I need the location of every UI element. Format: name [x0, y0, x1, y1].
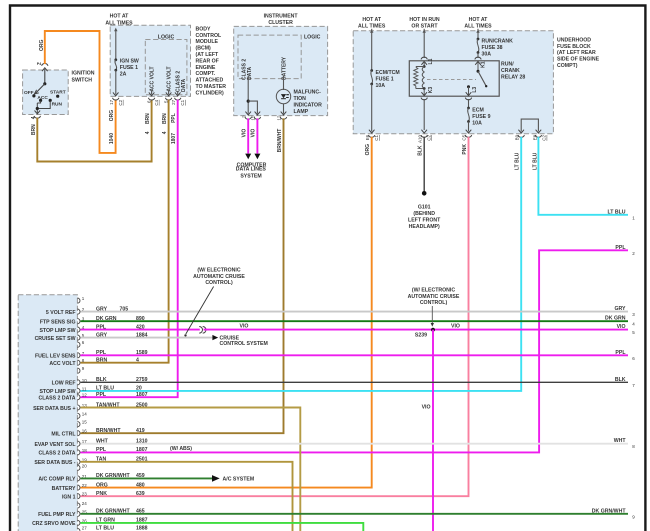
svg-text:P4: P4 — [37, 62, 41, 66]
wire WHT 1310 pin 17 to right pin 8 — [81, 443, 629, 445]
svg-text:ACC VOLT: ACC VOLT — [149, 66, 155, 91]
left connector pin 9 — [77, 366, 84, 373]
svg-text:C2: C2 — [427, 135, 432, 141]
BCM pin 27 C1 — [171, 92, 185, 144]
svg-text:BODY: BODY — [196, 26, 212, 32]
svg-text:LOW REF: LOW REF — [52, 381, 76, 387]
svg-text:CRUISE SET SW: CRUISE SET SW — [35, 336, 76, 342]
left connector pin 8 — [49, 358, 139, 368]
svg-text:CLUSTER: CLUSTER — [268, 20, 293, 26]
svg-text:ATTACHED: ATTACHED — [196, 78, 224, 84]
svg-text:STOP LMP SW: STOP LMP SW — [39, 328, 75, 334]
fuse block pin B9 — [514, 130, 524, 170]
svg-text:K3: K3 — [428, 87, 434, 94]
svg-text:11: 11 — [82, 386, 87, 391]
underhood fuse block side note — [557, 38, 600, 69]
svg-text:1807: 1807 — [136, 392, 148, 398]
svg-text:CLASS 2 DATA: CLASS 2 DATA — [39, 396, 76, 402]
svg-text:PPL: PPL — [96, 392, 107, 398]
svg-text:S239: S239 — [415, 333, 427, 339]
svg-text:SER DATA BUS +: SER DATA BUS + — [33, 406, 75, 412]
svg-text:BRN: BRN — [96, 358, 107, 364]
svg-text:10A: 10A — [376, 83, 386, 89]
svg-text:ORG: ORG — [109, 110, 115, 122]
HOT IN RUN OR START — [409, 17, 440, 29]
wire VIO cluster pin 15 to computer data lines — [254, 118, 260, 159]
left connector pin 23 — [62, 491, 145, 501]
cluster BATTERY label — [282, 56, 288, 80]
svg-text:RUN: RUN — [52, 102, 63, 108]
left connector pin 2 — [46, 306, 128, 316]
svg-text:C1: C1 — [374, 135, 379, 141]
body control module BCM box — [110, 25, 190, 96]
malfunction indicator lamp — [276, 76, 322, 115]
wire VIO splice S239 branch down — [422, 330, 433, 531]
svg-text:HOT AT: HOT AT — [469, 17, 489, 23]
svg-text:A/C SYSTEM: A/C SYSTEM — [223, 477, 255, 483]
svg-text:27: 27 — [171, 99, 176, 105]
svg-text:VIO: VIO — [451, 324, 460, 330]
svg-text:HEADLAMP): HEADLAMP) — [409, 224, 440, 230]
HOT AT ALL TIMES (left feed) — [358, 17, 386, 29]
right pin 1 — [607, 209, 635, 220]
svg-text:DK GRN: DK GRN — [605, 316, 626, 322]
svg-text:AUTOMATIC CRUISE: AUTOMATIC CRUISE — [193, 274, 245, 280]
instrument cluster box — [234, 14, 328, 116]
fuse block pin C5 — [462, 130, 472, 155]
svg-text:419: 419 — [136, 428, 145, 434]
left connector pin 17 — [34, 439, 147, 449]
svg-text:LT BLU: LT BLU — [515, 152, 521, 170]
svg-text:ACC VOLT: ACC VOLT — [166, 66, 172, 91]
svg-text:VIO: VIO — [242, 129, 248, 138]
svg-text:RUN/CRANK: RUN/CRANK — [482, 38, 514, 44]
svg-text:ACC: ACC — [37, 95, 48, 101]
svg-text:BRN/WHT: BRN/WHT — [277, 129, 283, 153]
svg-text:CONTROL): CONTROL) — [420, 300, 448, 306]
svg-text:(BCM): (BCM) — [196, 46, 212, 52]
svg-text:FUEL LEV SENS: FUEL LEV SENS — [35, 354, 76, 360]
wire LT BLU B9 to left connector pin 11 — [81, 137, 522, 391]
svg-text:PPL: PPL — [615, 245, 626, 251]
wire LT BLU E8 to right pin 1 — [538, 137, 628, 215]
svg-text:15: 15 — [251, 115, 256, 121]
inline connector on PPL/VIO wire — [199, 327, 206, 334]
svg-text:CONTROL: CONTROL — [196, 33, 222, 39]
svg-text:(W/ ELECTRONIC: (W/ ELECTRONIC — [412, 288, 455, 294]
svg-text:20: 20 — [136, 386, 142, 392]
ignition switch lower bracket wiring — [36, 101, 51, 114]
relay switch blade — [477, 61, 488, 87]
svg-text:1807: 1807 — [136, 447, 148, 453]
svg-text:BRN/WHT: BRN/WHT — [96, 428, 121, 434]
underhood fuse block box — [353, 31, 553, 134]
svg-text:PPL: PPL — [615, 350, 626, 356]
svg-text:23: 23 — [82, 492, 88, 497]
left connector pin 5 — [35, 332, 148, 342]
svg-text:CLASS 2 DATA: CLASS 2 DATA — [39, 451, 76, 457]
svg-text:FUSE 9: FUSE 9 — [472, 114, 490, 120]
svg-text:GRY: GRY — [614, 306, 626, 312]
svg-text:22: 22 — [82, 483, 88, 488]
svg-text:1040: 1040 — [109, 133, 115, 144]
cluster pin 12 — [277, 112, 287, 153]
left connector pin 26 — [32, 518, 148, 528]
svg-text:MIL CTRL: MIL CTRL — [51, 432, 76, 438]
svg-text:BLK: BLK — [418, 145, 424, 156]
svg-text:12: 12 — [82, 393, 88, 398]
svg-text:(BEHIND: (BEHIND — [413, 211, 435, 217]
left connector pin 7 — [35, 350, 148, 360]
svg-text:5 VOLT REF: 5 VOLT REF — [46, 310, 76, 316]
wire BRN BCM pin 5 to left connector pin 8 — [81, 100, 169, 363]
computer data lines system note — [236, 162, 267, 179]
svg-text:4: 4 — [136, 358, 139, 364]
svg-text:30A: 30A — [482, 51, 492, 57]
svg-text:DATA LINES: DATA LINES — [236, 167, 267, 173]
svg-text:14: 14 — [82, 411, 88, 416]
left connector pin 19 — [34, 457, 147, 467]
svg-text:COMPT.: COMPT. — [196, 71, 216, 77]
svg-text:BRN: BRN — [31, 124, 37, 135]
wire BLK A10 to ground G101 — [423, 137, 425, 192]
right pin 4 — [605, 316, 635, 327]
left connector pin 10 — [52, 377, 148, 387]
svg-text:C2: C2 — [118, 99, 123, 105]
svg-text:2A: 2A — [120, 72, 127, 78]
relay coil with parallel resistor — [414, 61, 426, 96]
left connector pin 11 — [39, 386, 141, 396]
svg-text:BRN: BRN — [162, 113, 168, 124]
left connector pin 25 — [38, 509, 145, 519]
wire BRN ignition switch to BCM pin 6 — [37, 100, 151, 162]
svg-text:AUTOMATIC CRUISE: AUTOMATIC CRUISE — [408, 294, 460, 300]
fuse ECM/TCM FUSE 1 10A — [370, 29, 400, 132]
svg-text:VIO: VIO — [422, 404, 431, 410]
left connector pin 24 — [77, 501, 87, 508]
svg-text:L1: L1 — [428, 58, 434, 64]
left connector pin 16 — [51, 428, 144, 438]
svg-text:15: 15 — [82, 420, 88, 425]
svg-text:LAMP: LAMP — [294, 109, 309, 115]
HOT AT ALL TIMES (BCM) — [105, 14, 133, 27]
svg-text:HOT AT: HOT AT — [110, 14, 130, 20]
left connector pin 27 — [77, 525, 147, 531]
splice S239 — [415, 328, 435, 339]
left connector pin 21 — [38, 473, 144, 483]
svg-text:MODULE: MODULE — [196, 39, 219, 45]
svg-text:VIO: VIO — [240, 323, 249, 329]
svg-text:C5: C5 — [462, 134, 467, 140]
cluster pin 15 — [251, 112, 261, 138]
svg-text:TION: TION — [294, 96, 307, 102]
svg-text:IGNITION: IGNITION — [72, 71, 95, 77]
left connector box (PCM) — [18, 295, 77, 531]
wire GRY 705 pin 2 to right pin 3 — [81, 311, 629, 313]
fuse block pin E8 C2 — [533, 130, 547, 170]
cluster logic box — [238, 35, 321, 79]
svg-text:LOGIC: LOGIC — [304, 35, 321, 41]
cluster CLASS 2 DATA label — [242, 59, 253, 80]
svg-text:TO MASTER: TO MASTER — [196, 84, 227, 90]
svg-text:LEFT FRONT: LEFT FRONT — [408, 217, 441, 223]
wire ORG ignition switch to BCM pin 17 — [39, 31, 116, 153]
wire TAN 2501 pin 19 down at x 292.5 — [81, 462, 293, 531]
svg-text:C1: C1 — [180, 99, 185, 105]
left connector pin 20 — [77, 463, 87, 470]
svg-text:START: START — [50, 90, 66, 96]
svg-text:12: 12 — [277, 115, 282, 121]
svg-text:C2: C2 — [542, 135, 547, 141]
svg-text:10A: 10A — [472, 120, 482, 126]
svg-text:ORG: ORG — [365, 144, 371, 156]
svg-text:24: 24 — [82, 501, 88, 506]
svg-text:FUSE 1: FUSE 1 — [120, 65, 138, 71]
svg-text:(W/ ABS): (W/ ABS) — [170, 446, 192, 452]
svg-text:ALL TIMES: ALL TIMES — [464, 23, 492, 29]
svg-text:ENGINE: ENGINE — [196, 65, 216, 71]
svg-text:WHT: WHT — [614, 438, 627, 444]
left connector pin 15 — [77, 420, 87, 427]
svg-text:SYSTEM: SYSTEM — [240, 173, 261, 179]
svg-text:1807: 1807 — [171, 133, 177, 144]
relay pin K3 — [421, 87, 434, 100]
svg-text:COMPT): COMPT) — [557, 63, 578, 69]
wire DK GRN/WHT 465 pin 25 to right pin 9 — [81, 513, 629, 515]
wire PNK C5 to left connector pin 23 — [81, 137, 469, 497]
right pin 3 — [614, 306, 635, 317]
svg-text:16: 16 — [82, 429, 88, 434]
relay pin L1 — [421, 57, 434, 65]
svg-text:OFF: OFF — [24, 90, 34, 96]
svg-text:PPL: PPL — [96, 447, 107, 453]
right pin 6 — [615, 350, 635, 361]
svg-text:IGN SW: IGN SW — [120, 59, 139, 65]
svg-text:27: 27 — [82, 525, 88, 530]
svg-text:E8: E8 — [533, 134, 538, 140]
svg-text:(W/ ELECTRONIC: (W/ ELECTRONIC — [197, 268, 240, 274]
svg-text:A/C COMP RLY: A/C COMP RLY — [38, 477, 76, 483]
svg-text:ALL TIMES: ALL TIMES — [358, 23, 386, 29]
left connector pin 1 — [77, 296, 84, 303]
left connector pin 13 — [33, 402, 148, 412]
wire relay K3 to fuse block pin A10 — [423, 99, 425, 130]
svg-text:CONTROL SYSTEM: CONTROL SYSTEM — [220, 341, 268, 347]
left connector pin 22 — [52, 482, 145, 492]
left connector pin 18 — [39, 447, 148, 457]
svg-text:VIO: VIO — [251, 129, 257, 138]
svg-text:ORG: ORG — [39, 40, 45, 52]
wire VIO cluster pin 2 to computer data lines — [245, 118, 251, 159]
svg-text:SWITCH: SWITCH — [72, 77, 93, 83]
svg-text:LT BLU: LT BLU — [607, 209, 625, 215]
ignition switch top pin P4 — [37, 62, 48, 71]
svg-text:SER DATA BUS -: SER DATA BUS - — [34, 460, 75, 466]
svg-text:(AT LEFT: (AT LEFT — [196, 52, 219, 58]
BCM pin 5 — [162, 92, 172, 134]
wire BRN/WHT cluster pin 12 to left connector pin 16 — [81, 118, 284, 433]
fuse block pin A10 C2 — [417, 130, 431, 156]
fuse ECM FUSE 9 10A — [467, 99, 490, 132]
right pin 5 — [617, 324, 636, 335]
BCM logic box — [145, 34, 187, 94]
wire PPL 1589 pin 7 to right pin 6 — [81, 354, 629, 356]
svg-text:18: 18 — [82, 448, 88, 453]
run/crank relay 28 box — [409, 61, 525, 96]
svg-text:IGN 1: IGN 1 — [62, 495, 76, 501]
wire ORG fuse E6 to left connector pin 22 — [81, 137, 372, 488]
svg-text:FUSE 1: FUSE 1 — [376, 76, 394, 82]
wire DK GRN 890 pin 3 to right pin 4 — [81, 320, 629, 322]
svg-text:ACC VOLT: ACC VOLT — [49, 361, 76, 367]
svg-text:DK GRN/WHT: DK GRN/WHT — [592, 508, 627, 514]
wire PPL right pin 2 to left connector pin 18 — [81, 250, 629, 452]
svg-text:K1: K1 — [481, 61, 487, 68]
wire BLK 2759 pin 10 to right pin 7 — [81, 381, 629, 383]
relay pin L3 — [465, 85, 478, 100]
wire PPL 420 pin 4 to inline connector — [81, 329, 200, 331]
ground G101 — [408, 191, 441, 230]
HOT AT ALL TIMES (right feed) — [464, 17, 492, 29]
svg-text:BLK: BLK — [615, 377, 626, 383]
left connector pin 12 — [39, 392, 148, 402]
svg-text:SIDE OF ENGINE: SIDE OF ENGINE — [557, 57, 600, 63]
svg-text:FUSE BLOCK: FUSE BLOCK — [557, 44, 591, 50]
wire GRY 1884 pin 5 to cruise control system — [81, 335, 268, 347]
svg-text:VIO: VIO — [617, 324, 626, 330]
BCM pin 6 C4 — [145, 92, 159, 134]
svg-text:B9: B9 — [514, 134, 519, 140]
svg-text:PNK: PNK — [96, 491, 107, 497]
svg-text:LT BLU: LT BLU — [96, 525, 114, 531]
wire LT GRN 1887 pin 26 down at x 363 — [81, 523, 364, 531]
svg-text:ECM/TCM: ECM/TCM — [376, 70, 400, 76]
svg-text:HOT IN RUN: HOT IN RUN — [409, 17, 440, 23]
(W/ ABS) note on row 18 — [170, 446, 192, 452]
svg-text:STOP LMP SW: STOP LMP SW — [39, 389, 75, 395]
fuse RUN/CRANK FUSE 38 30A — [476, 29, 513, 58]
relay pin K1 — [475, 57, 487, 68]
right pin 9 — [592, 508, 636, 519]
left connector pin 6 — [77, 340, 84, 347]
svg-text:LOGIC: LOGIC — [158, 34, 175, 40]
svg-text:CYLINDER): CYLINDER) — [196, 90, 225, 96]
cruise control note upper — [184, 268, 245, 337]
svg-text:ECM: ECM — [472, 107, 484, 113]
right pin 2 — [615, 245, 635, 256]
svg-text:OR START: OR START — [411, 23, 438, 29]
wire HOT IN RUN to relay L1 — [423, 29, 426, 58]
svg-text:HOT AT: HOT AT — [362, 17, 382, 23]
svg-text:LT BLU: LT BLU — [96, 386, 114, 392]
svg-text:INSTRUMENT: INSTRUMENT — [264, 14, 299, 20]
svg-text:FTP SENS SIG: FTP SENS SIG — [40, 320, 76, 326]
svg-text:4: 4 — [31, 116, 37, 119]
right pin 7 — [615, 377, 635, 388]
svg-text:RUN/: RUN/ — [501, 62, 514, 68]
svg-text:4: 4 — [162, 131, 168, 134]
svg-text:L3: L3 — [472, 87, 478, 93]
wire TAN/WHT 2500 pin 13 down at x 300 — [81, 408, 301, 531]
wire VIO connector to right pin 5 with splice S239 — [204, 323, 628, 329]
wire PPL BCM pin 27 to left connector pin 12 — [81, 100, 178, 398]
left connector pin 14 — [77, 411, 87, 418]
svg-text:BRN: BRN — [145, 113, 151, 124]
svg-text:E6: E6 — [365, 134, 370, 140]
svg-text:1888: 1888 — [136, 525, 148, 531]
svg-text:PNK: PNK — [462, 144, 468, 155]
svg-text:G101: G101 — [418, 204, 431, 210]
svg-text:20: 20 — [82, 463, 88, 468]
svg-text:UNDERHOOD: UNDERHOOD — [557, 38, 591, 44]
svg-text:BATTERY: BATTERY — [52, 486, 76, 492]
svg-text:CRZ SRVO MOVE: CRZ SRVO MOVE — [32, 521, 76, 527]
left connector pin 3 — [40, 316, 145, 326]
ignition switch box — [23, 70, 95, 115]
svg-text:4: 4 — [145, 131, 151, 134]
wire DK GRN/WHT 459 pin 21 to A/C system — [81, 475, 255, 483]
svg-text:BATTERY: BATTERY — [282, 56, 288, 80]
svg-text:(AT LEFT REAR: (AT LEFT REAR — [557, 50, 596, 56]
right pin 8 — [614, 438, 636, 449]
ignition switch bottom pin 4 — [31, 111, 41, 136]
BCM pin labels ACC VOLT / ACC VOLT / CLASS 2 DATA — [149, 66, 186, 94]
svg-text:17: 17 — [109, 99, 114, 105]
svg-text:INDICATOR: INDICATOR — [294, 102, 323, 108]
svg-text:EVAP VENT SOL: EVAP VENT SOL — [34, 442, 76, 448]
svg-text:CONTROL): CONTROL) — [205, 280, 233, 286]
svg-text:639: 639 — [136, 491, 145, 497]
BCM pin 17 C2 — [109, 92, 123, 144]
svg-text:RELAY 28: RELAY 28 — [501, 75, 525, 81]
svg-text:REAR OF: REAR OF — [196, 58, 219, 64]
svg-text:MALFUNC-: MALFUNC- — [294, 89, 322, 95]
svg-text:480: 480 — [136, 482, 145, 488]
BCM side note — [196, 26, 227, 96]
svg-text:PPL: PPL — [171, 113, 177, 123]
svg-text:FUEL PMP RLY: FUEL PMP RLY — [38, 512, 76, 518]
cluster class 2 data wiring with junction — [247, 76, 258, 114]
svg-text:CRANK: CRANK — [501, 68, 520, 74]
svg-text:A10: A10 — [417, 135, 422, 144]
fuse IGN SW FUSE 1 2A — [114, 28, 139, 95]
svg-text:C4: C4 — [154, 99, 159, 105]
jumper bridge B9 to E8 — [521, 119, 538, 131]
left connector pin 4 — [39, 324, 144, 334]
cruise control note lower with arrow to S239 — [408, 288, 460, 327]
svg-text:ORG: ORG — [96, 482, 108, 488]
svg-text:FUSE 38: FUSE 38 — [482, 45, 503, 51]
fuse block pin E6 C1 — [365, 130, 379, 156]
cluster pin 2 — [241, 112, 251, 138]
ignition switch wiper and contacts — [24, 69, 66, 108]
svg-text:DATA: DATA — [181, 78, 187, 92]
